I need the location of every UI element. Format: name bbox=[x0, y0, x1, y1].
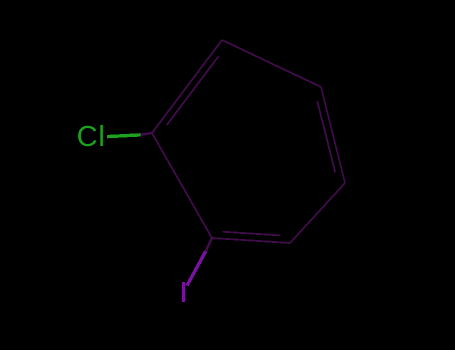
benzene ring double bond inner line C1=C2 bbox=[167, 56, 219, 125]
benzene ring bond C6-C1 (left edge) bbox=[152, 133, 212, 238]
bond C6-I dark half (near ring) bbox=[206, 238, 213, 252]
atom label Cl (chlorine) bbox=[77, 121, 106, 154]
bond C6-I purple half (near I label) bbox=[187, 252, 206, 286]
benzene ring bond C1-C2 (top-left edge) bbox=[152, 40, 222, 133]
benzene ring bond C3-C4 (right edge) bbox=[321, 87, 345, 183]
benzene ring bond C5-C6 (bottom edge) bbox=[212, 238, 290, 243]
bond C1-Cl dark half (near ring) bbox=[140, 133, 152, 135]
bond C1-Cl green half (near Cl label) bbox=[107, 135, 141, 137]
atom label I (iodine) bbox=[182, 282, 185, 302]
benzene ring bond C2-C3 (top-right edge) bbox=[222, 40, 321, 87]
benzene ring double bond inner line C5=C6 bbox=[223, 232, 281, 236]
benzene ring double bond inner line C3=C4 bbox=[317, 101, 335, 172]
benzene ring bond C4-C5 (lower-right edge) bbox=[290, 183, 345, 243]
